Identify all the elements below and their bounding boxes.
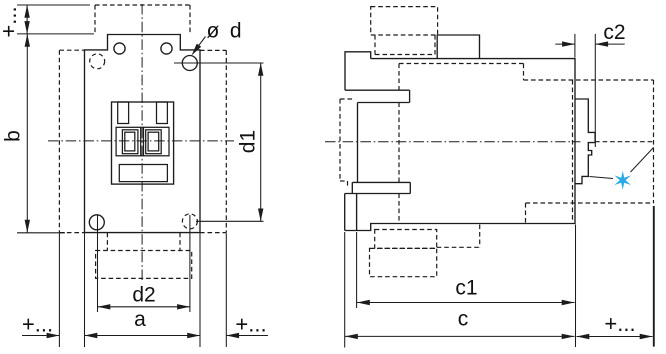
svg-text:+...: +... <box>604 311 635 336</box>
svg-text:ø d: ø d <box>207 20 242 43</box>
svg-text:+...: +... <box>22 312 53 337</box>
svg-text:a: a <box>134 308 146 331</box>
svg-text:c: c <box>458 307 469 330</box>
svg-text:c1: c1 <box>455 276 477 299</box>
svg-text:d2: d2 <box>132 283 155 306</box>
svg-text:c2: c2 <box>603 21 625 44</box>
svg-text:+...: +... <box>0 6 21 37</box>
svg-text:+...: +... <box>235 312 266 337</box>
svg-text:d1: d1 <box>237 130 260 153</box>
svg-text:b: b <box>2 130 25 142</box>
